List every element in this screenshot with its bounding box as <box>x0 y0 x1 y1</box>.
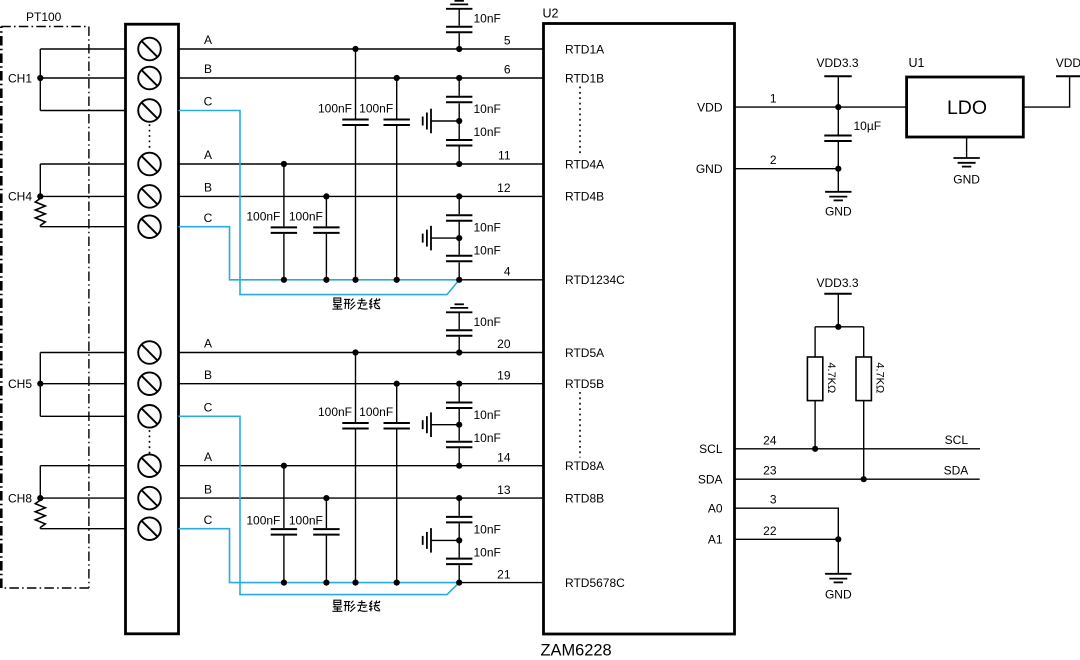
svg-text:21: 21 <box>497 567 511 581</box>
wire pullup tee <box>815 326 864 328</box>
svg-text:10nF: 10nF <box>474 315 501 329</box>
svg-text:10nF: 10nF <box>474 545 501 559</box>
wire CH8-C to terminal <box>40 528 125 530</box>
svg-text:CH4: CH4 <box>8 190 32 204</box>
svg-text:19: 19 <box>497 368 511 382</box>
svg-text:4.7KΩ: 4.7KΩ <box>874 362 886 393</box>
wire CH4-A to terminal <box>40 163 125 165</box>
svg-text:100nF: 100nF <box>359 101 393 115</box>
wire VDD pin1 to LDO <box>735 106 907 108</box>
CH1 PT100 channel wiring <box>37 49 43 111</box>
svg-text:1: 1 <box>770 92 777 106</box>
resistor CH8 PT100 element <box>35 500 45 527</box>
svg-text:10nF: 10nF <box>474 244 501 258</box>
terminal screw 4 <box>138 153 161 176</box>
capacitor C7 100nF <box>271 463 297 586</box>
wire row A pin5 <box>179 48 544 50</box>
svg-text:SCL: SCL <box>945 433 969 447</box>
svg-text:6: 6 <box>504 63 511 77</box>
svg-text:U1: U1 <box>909 56 925 70</box>
terminal screw 10 <box>138 454 161 477</box>
capacitor C3 100nF <box>271 161 297 283</box>
node SCL pullup <box>812 446 818 452</box>
ground left of C10/C11 10nF stack upper1 <box>423 109 460 134</box>
capacitor C1 100nF <box>342 46 368 283</box>
wire C star-route lower group first channel (blue) <box>179 416 460 594</box>
wire CH4-B to terminal <box>40 195 125 197</box>
ground left of C16/C17 10nF stack lower2 <box>423 528 460 553</box>
wire CH4-C to terminal <box>40 226 125 228</box>
PT100 sensor box outline <box>1 27 89 589</box>
power symbol VDD3.3 (pullups) <box>816 276 858 327</box>
svg-text:C: C <box>204 513 213 527</box>
wire GND pin2 <box>735 168 839 170</box>
node pullup tee <box>835 324 841 330</box>
node A0/A1 junction <box>835 536 841 542</box>
svg-text:VDD: VDD <box>697 100 723 114</box>
svg-text:VDD3.3: VDD3.3 <box>816 56 858 70</box>
capacitor C4 100nF <box>313 193 339 283</box>
IC U2 ZAM6228 body <box>544 24 735 635</box>
wire CH1-A to terminal <box>40 48 125 50</box>
wire CH5-A to terminal <box>40 352 125 354</box>
wire C star-route upper group first channel (blue) <box>179 111 460 295</box>
terminal screw 8 <box>138 372 161 395</box>
terminal screw 3 <box>138 99 161 122</box>
svg-text:5: 5 <box>504 34 511 48</box>
capacitor 10uF <box>824 107 851 169</box>
svg-text:A: A <box>204 450 212 464</box>
capacitor C16/C17 10nF stack lower2 (two series 10nF) <box>446 495 472 586</box>
svg-text:12: 12 <box>497 181 511 195</box>
wire SCL <box>735 448 981 450</box>
svg-text:RTD1234C: RTD1234C <box>565 273 625 287</box>
wire CH8-B to terminal <box>40 497 125 499</box>
svg-text:C: C <box>204 211 213 225</box>
svg-text:10µF: 10µF <box>854 119 882 133</box>
svg-text:11: 11 <box>498 149 511 163</box>
dotted continuation upper terminals <box>149 124 151 150</box>
svg-text:RTD4A: RTD4A <box>565 157 604 171</box>
svg-text:10nF: 10nF <box>474 221 501 235</box>
star-routing label upper (星形走线) <box>332 298 380 310</box>
terminal screw 2 <box>138 67 161 90</box>
terminal screw 11 <box>138 487 161 510</box>
wire CH5-C to terminal <box>40 415 125 417</box>
ground below A0/A1 <box>825 539 852 601</box>
wire CH1-B to terminal <box>40 77 125 79</box>
ground left of C14/C15 10nF stack lower1 <box>423 412 460 437</box>
svg-text:A: A <box>204 337 212 351</box>
wire row A pin11 <box>179 163 544 165</box>
power symbol VDD3.3 (top) <box>816 56 858 107</box>
wire SDA <box>735 478 980 480</box>
svg-text:RTD5B: RTD5B <box>565 377 604 391</box>
capacitor C6 100nF <box>384 381 410 586</box>
svg-text:SDA: SDA <box>944 464 969 478</box>
CH8 PT100 channel wiring <box>37 466 43 502</box>
capacitor C9 10nF top upper <box>446 9 472 52</box>
wire row A pin14 <box>179 465 544 467</box>
svg-text:13: 13 <box>497 483 511 497</box>
svg-text:2: 2 <box>770 153 777 167</box>
capacitor C14/C15 10nF stack lower1 (two series 10nF) <box>446 381 472 469</box>
svg-text:B: B <box>204 482 212 496</box>
ground below 10uF <box>825 169 852 219</box>
star-routing label lower (星形走线) <box>332 600 380 612</box>
node SDA pullup <box>861 476 867 482</box>
svg-text:VDD: VDD <box>1056 56 1080 70</box>
wire common net lower to IC <box>459 582 543 584</box>
svg-text:100nF: 100nF <box>246 209 280 223</box>
node GND junction <box>835 166 841 172</box>
svg-text:SCL: SCL <box>699 442 723 456</box>
CH5 PT100 channel wiring <box>37 353 43 417</box>
svg-text:100nF: 100nF <box>289 209 323 223</box>
svg-text:CH1: CH1 <box>8 71 32 85</box>
IC U1 LDO body <box>907 77 1024 137</box>
svg-text:24: 24 <box>763 433 777 447</box>
wire LDO output to VDD <box>1023 76 1069 107</box>
svg-text:RTD5A: RTD5A <box>565 346 604 360</box>
wire row B pin12 <box>179 195 544 197</box>
svg-text:RTD1B: RTD1B <box>565 71 604 85</box>
svg-text:3: 3 <box>770 493 777 507</box>
svg-text:RTD8B: RTD8B <box>565 491 604 505</box>
svg-text:ZAM6228: ZAM6228 <box>541 642 612 660</box>
svg-text:22: 22 <box>763 524 777 538</box>
wire A0 <box>735 508 839 539</box>
wire C star-route upper group last channel (blue) <box>179 227 460 280</box>
svg-text:RTD1A: RTD1A <box>565 42 604 56</box>
svg-text:100nF: 100nF <box>359 405 393 419</box>
wire row B pin6 <box>179 77 544 79</box>
svg-text:GND: GND <box>825 205 852 219</box>
dotted pin continuation RTD1B..RTD4A <box>579 87 581 156</box>
ground left of C12/C13 10nF stack upper2 <box>423 226 460 251</box>
terminal screw 6 <box>138 215 161 238</box>
ground above C13 10nF top lower <box>446 311 472 313</box>
svg-text:GND: GND <box>953 173 980 187</box>
svg-text:20: 20 <box>497 337 511 351</box>
svg-text:VDD3.3: VDD3.3 <box>816 276 858 290</box>
dotted pin continuation RTD5B..RTD8A <box>579 392 581 458</box>
wire A1 <box>735 538 839 540</box>
wire CH5-B to terminal <box>40 383 125 385</box>
svg-text:LDO: LDO <box>947 97 987 119</box>
svg-text:CH5: CH5 <box>8 377 32 391</box>
svg-text:GND: GND <box>825 588 852 602</box>
terminal screw 9 <box>138 405 161 428</box>
wire row B pin19 <box>179 383 544 385</box>
wire CH1-C to terminal <box>40 110 125 112</box>
capacitor C2 100nF <box>384 75 410 283</box>
svg-text:10nF: 10nF <box>474 11 501 25</box>
svg-text:10nF: 10nF <box>474 102 501 116</box>
capacitor C5 100nF <box>342 349 368 585</box>
svg-text:23: 23 <box>763 464 777 478</box>
svg-text:RTD8A: RTD8A <box>565 459 604 473</box>
svg-text:CH8: CH8 <box>8 491 32 505</box>
svg-text:4.7KΩ: 4.7KΩ <box>825 362 837 393</box>
ground below LDO <box>953 137 980 187</box>
svg-text:RTD4B: RTD4B <box>565 190 604 204</box>
resistor CH4 PT100 element <box>35 198 45 225</box>
svg-text:B: B <box>204 62 212 76</box>
svg-text:GND: GND <box>696 162 723 176</box>
svg-text:100nF: 100nF <box>289 513 323 527</box>
svg-text:A1: A1 <box>708 533 723 547</box>
svg-text:A: A <box>204 33 212 47</box>
svg-text:C: C <box>204 95 213 109</box>
svg-text:A: A <box>204 148 212 162</box>
svg-text:10nF: 10nF <box>474 431 501 445</box>
wire row B pin13 <box>179 497 544 499</box>
svg-text:U2: U2 <box>543 7 559 21</box>
svg-text:SDA: SDA <box>698 473 723 487</box>
terminal screw 7 <box>138 341 161 364</box>
capacitor C13 10nF top lower <box>446 312 472 355</box>
svg-text:RTD5678C: RTD5678C <box>565 576 625 590</box>
terminal screw 5 <box>138 185 161 208</box>
svg-text:B: B <box>204 181 212 195</box>
capacitor C10/C11 10nF stack upper1 (two series 10nF) <box>446 75 472 167</box>
wire row A pin20 <box>179 352 544 354</box>
terminal screw 1 <box>138 38 161 61</box>
resistor R1 4.7K <box>807 327 822 449</box>
wire common net upper to IC <box>459 279 543 281</box>
ground above C9 10nF top upper <box>446 8 472 10</box>
svg-text:PT100: PT100 <box>26 10 62 24</box>
svg-text:A0: A0 <box>708 502 723 516</box>
terminal screw 12 <box>138 517 161 540</box>
resistor R2 4.7K <box>856 327 871 479</box>
svg-text:10nF: 10nF <box>474 408 501 422</box>
svg-text:10nF: 10nF <box>474 125 501 139</box>
svg-text:B: B <box>204 368 212 382</box>
svg-text:100nF: 100nF <box>246 513 280 527</box>
terminal block J1 <box>126 24 179 634</box>
capacitor C12/C13 10nF stack upper2 (two series 10nF) <box>446 193 472 283</box>
dotted continuation lower terminals <box>149 430 151 453</box>
svg-text:C: C <box>204 401 213 415</box>
svg-text:4: 4 <box>504 265 511 279</box>
wire CH8-A to terminal <box>40 465 125 467</box>
capacitor C8 100nF <box>313 495 339 586</box>
power symbol VDD (top right) <box>1056 56 1080 76</box>
CH4 PT100 channel wiring <box>37 164 43 199</box>
svg-text:100nF: 100nF <box>318 101 352 115</box>
svg-text:14: 14 <box>497 450 511 464</box>
svg-text:100nF: 100nF <box>318 405 352 419</box>
node VDD3.3 junction <box>835 104 841 110</box>
wire C star-route lower group last channel (blue) <box>179 529 460 583</box>
svg-text:10nF: 10nF <box>474 522 501 536</box>
